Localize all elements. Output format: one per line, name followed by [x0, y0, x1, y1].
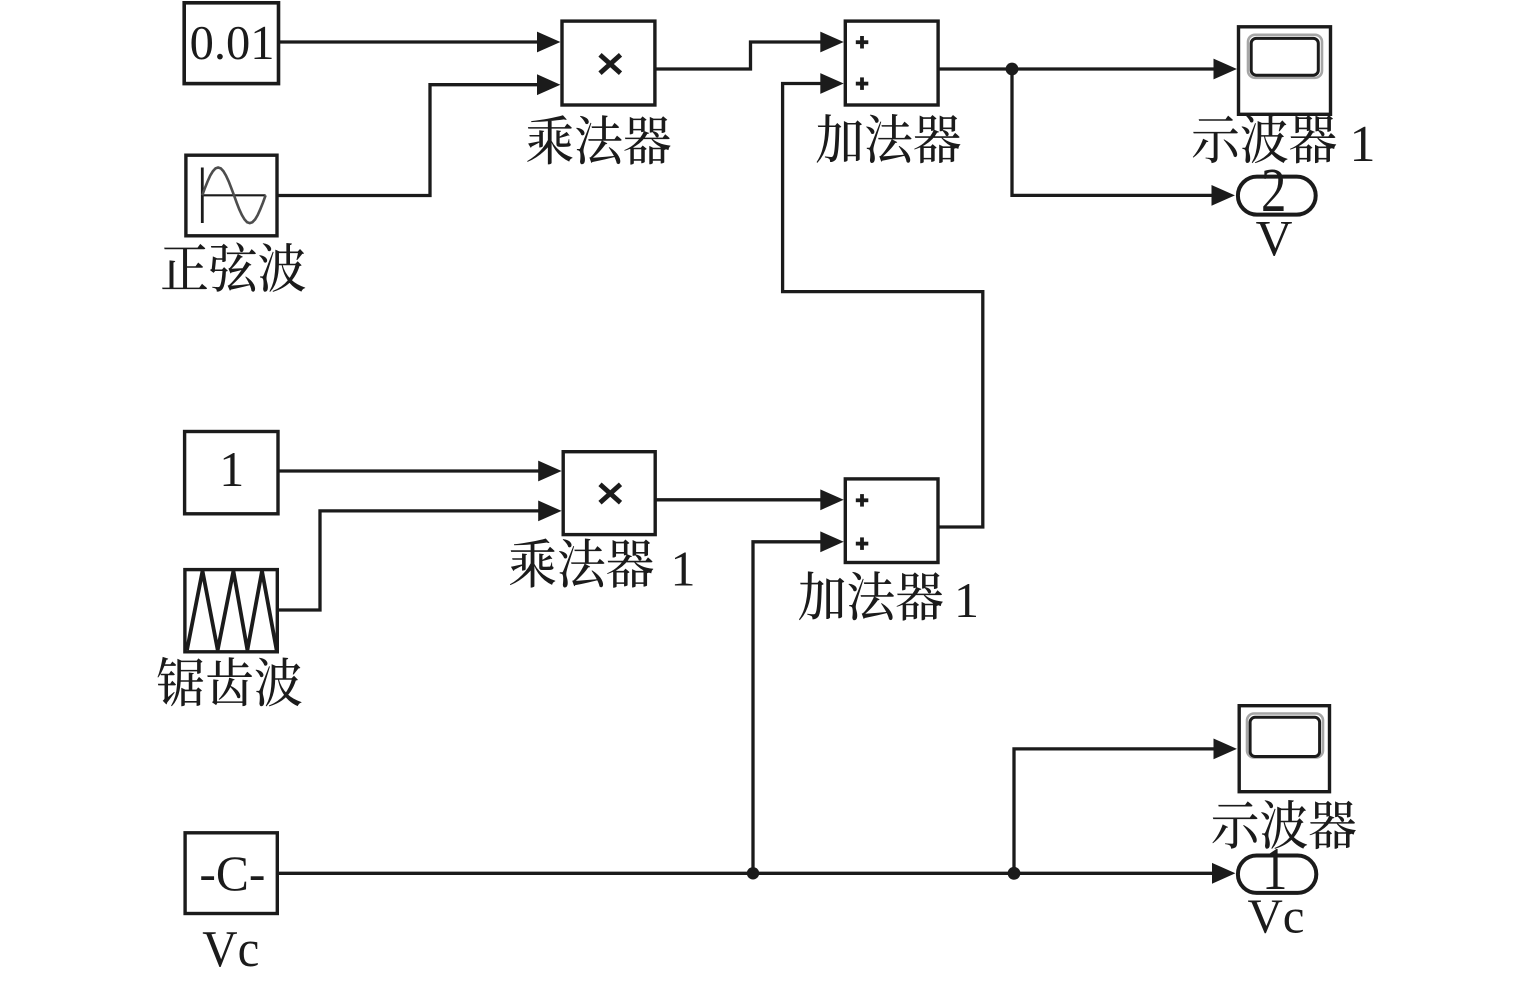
- output port 1 stadium: [1238, 856, 1316, 893]
- adder block 加法器: [845, 21, 938, 105]
- svg-text:0.01: 0.01: [190, 17, 275, 70]
- constant block 1: [185, 432, 278, 514]
- wire multiplier1 to adder1 in1: [655, 489, 844, 510]
- svg-text:-C-: -C-: [199, 845, 265, 901]
- junction adder output: [1006, 63, 1019, 76]
- label 乘法器 1: [510, 538, 653, 587]
- svg-text:Vc: Vc: [1248, 889, 1305, 944]
- svg-text:1: 1: [1350, 116, 1376, 173]
- label 示波器: [1212, 800, 1355, 849]
- scope 1 screen: [1248, 35, 1322, 78]
- sawtooth icon: [187, 571, 277, 650]
- wire sawtooth to multiplier1 in2: [277, 501, 562, 611]
- sine wave source block: [186, 155, 277, 236]
- svg-text:1: 1: [954, 572, 979, 628]
- multiply x symbol 1: [600, 484, 621, 502]
- wire multiplier to adder in1: [655, 32, 844, 69]
- scope 2 screen: [1247, 714, 1323, 758]
- svg-text:1: 1: [671, 541, 696, 597]
- wire 0.01 to multiplier in1: [278, 32, 560, 53]
- sawtooth source block: [185, 570, 277, 652]
- wire branch -C- to scope2: [1014, 739, 1237, 874]
- plus symbols of adder: [856, 36, 869, 90]
- multiplier block 乘法器: [562, 21, 655, 105]
- scope block top: [1239, 27, 1331, 115]
- plus symbols of adder 1: [856, 494, 869, 550]
- multiply x symbol: [600, 55, 621, 73]
- label 乘法器: [527, 115, 670, 164]
- svg-text:Vc: Vc: [202, 921, 259, 978]
- label 加法器: [817, 114, 961, 163]
- wire adder to scope1: [938, 59, 1237, 80]
- label 锯齿波: [158, 657, 302, 706]
- junction -C- line left: [747, 867, 759, 879]
- wire -C- to outport 1: [277, 863, 1235, 884]
- wire sine to multiplier in2: [277, 74, 560, 195]
- scope block bottom: [1239, 706, 1329, 792]
- adder block 1: [845, 479, 938, 563]
- multiplier block 1: [563, 452, 655, 535]
- wire adder1 output feedback to adder in2: [783, 73, 983, 527]
- junction -C- line right: [1008, 867, 1021, 880]
- wire 1 to multiplier1 in1: [278, 461, 562, 482]
- sine icon curve: [202, 168, 265, 224]
- label 示波器 1: [1193, 114, 1336, 163]
- constant block -C-: [185, 833, 277, 914]
- output port 2 stadium: [1238, 177, 1316, 215]
- label 正弦波: [162, 242, 305, 291]
- svg-text:V: V: [1256, 211, 1293, 267]
- wire branch to outport 2: [1012, 69, 1235, 206]
- constant block 0.01: [184, 3, 278, 84]
- sine icon axes: [202, 168, 265, 224]
- svg-text:1: 1: [219, 441, 244, 497]
- label 加法器 1: [799, 571, 943, 620]
- wire branch -C- to adder1 in2: [753, 531, 844, 873]
